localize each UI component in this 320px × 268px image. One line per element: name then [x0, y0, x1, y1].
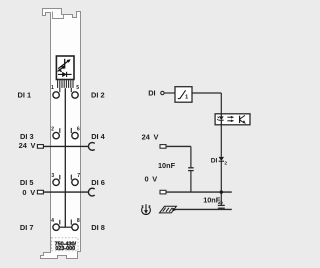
svg-text:0 V: 0 V: [22, 188, 35, 197]
svg-text:2: 2: [51, 126, 54, 132]
svg-text:DI: DI: [148, 88, 155, 97]
svg-text:3: 3: [51, 173, 54, 179]
svg-text:4: 4: [51, 218, 54, 224]
svg-text:2: 2: [224, 160, 227, 166]
svg-text:6: 6: [77, 126, 80, 132]
svg-text:5: 5: [76, 85, 79, 91]
svg-text:DI 7: DI 7: [20, 223, 34, 232]
svg-text:ab: ab: [218, 200, 223, 205]
svg-text:DI 4: DI 4: [91, 132, 105, 141]
svg-text:DI 5: DI 5: [20, 178, 34, 187]
svg-text:8: 8: [77, 218, 80, 224]
svg-text:DI 8: DI 8: [91, 223, 105, 232]
svg-text:DI 6: DI 6: [91, 178, 105, 187]
svg-text:24 V: 24 V: [142, 132, 159, 141]
svg-text:DI 3: DI 3: [20, 132, 34, 141]
svg-text:1: 1: [51, 85, 54, 91]
svg-text:7: 7: [77, 173, 80, 179]
svg-text:DI: DI: [211, 158, 218, 165]
svg-text:10nF: 10nF: [158, 161, 176, 170]
svg-text:DI 2: DI 2: [91, 91, 105, 100]
svg-text:DI 1: DI 1: [18, 91, 32, 100]
svg-text:023-000: 023-000: [55, 246, 75, 252]
svg-text:0 V: 0 V: [145, 175, 158, 184]
svg-text:24 V: 24 V: [19, 141, 36, 150]
